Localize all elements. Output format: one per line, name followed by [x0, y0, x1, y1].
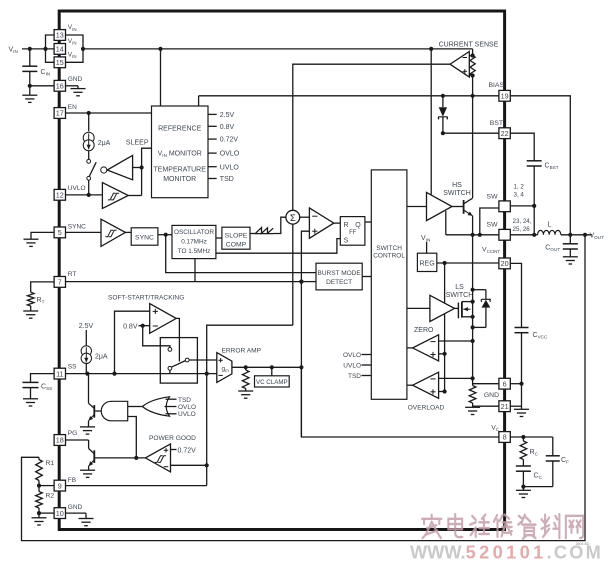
svg-text:R2: R2: [46, 493, 55, 500]
wire collector column: [472, 96, 474, 198]
wire VIN pin bracket right: [66, 35, 84, 62]
node VIN CIN tap: [28, 47, 32, 51]
wire sw1 internal: [480, 208, 499, 235]
wire pg out: [95, 457, 146, 459]
svg-text:GND: GND: [68, 76, 83, 83]
svg-text:ERROR AMP: ERROR AMP: [222, 347, 262, 354]
svg-text:0.72V: 0.72V: [220, 137, 239, 144]
wire SS rail: [66, 373, 217, 375]
pin 10 GND: [54, 504, 82, 519]
wire RT pin left: [31, 282, 54, 292]
svg-text:ZERO: ZERO: [414, 327, 434, 334]
amp ERROR gm: [217, 353, 232, 383]
wire sw to drain: [472, 235, 474, 302]
svg-text:GND: GND: [484, 392, 499, 399]
node RT burst join: [299, 280, 303, 284]
block mux: [160, 338, 197, 384]
svg-text:VC CLAMP: VC CLAMP: [256, 379, 288, 386]
resistor LS sense: [469, 386, 476, 404]
svg-text:FB: FB: [68, 477, 76, 484]
label GND right: [484, 392, 499, 399]
wire L to vout: [561, 234, 592, 236]
wire VIN rail: [83, 48, 473, 50]
node sync osc tap: [164, 233, 168, 237]
terminal VIN label: [9, 47, 18, 55]
wire slope comp out: [250, 233, 255, 235]
ground LS sense: [465, 407, 480, 414]
gate AND: [95, 401, 128, 421]
amp HS driver: [427, 192, 453, 220]
ground ea load: [238, 389, 253, 399]
wire sw1 external: [510, 206, 534, 235]
block VC CLAMP: [255, 376, 290, 387]
svg-text:RT: RT: [68, 271, 77, 278]
svg-text:25, 26: 25, 26: [513, 226, 531, 233]
wire sw to hs driver foot: [445, 211, 447, 235]
watermark url: [410, 543, 603, 563]
current source 2uA SS: [81, 346, 108, 364]
sawtooth glyph: [255, 228, 274, 234]
comparator SYNC: [101, 219, 125, 246]
wire ea out: [232, 366, 302, 368]
pin 22 BST: [490, 120, 511, 139]
switch EN blade: [89, 162, 96, 176]
svg-text:19: 19: [501, 92, 509, 101]
svg-text:PG: PG: [68, 430, 77, 437]
svg-text:0.72V: 0.72V: [178, 447, 197, 454]
wire ss amp out: [176, 318, 179, 361]
wire EN to 2uA: [88, 113, 90, 131]
ground RT: [23, 306, 38, 318]
svg-text:SYNC: SYNC: [68, 224, 86, 231]
comparator OVERLOAD: [413, 372, 439, 398]
wire sync buf to box: [125, 231, 131, 233]
svg-text:TO 1.5MHz: TO 1.5MHz: [178, 248, 211, 255]
wire vc vertical: [300, 282, 302, 437]
svg-text:UVLO: UVLO: [343, 363, 361, 370]
amp LS driver: [430, 295, 455, 321]
wire osc bottom to RT rail: [194, 259, 196, 282]
IC body outline: [59, 11, 504, 530]
svg-text:POWER GOOD: POWER GOOD: [149, 435, 196, 442]
resistor ea load: [242, 367, 249, 388]
ground pins 6/21 external: [514, 409, 529, 416]
svg-text:21: 21: [501, 402, 509, 411]
wire 0.8V to amp minus: [139, 325, 150, 327]
resistor R2: [36, 486, 55, 513]
svg-text:R1: R1: [46, 460, 55, 467]
wire sawtooth to sigma: [274, 217, 286, 233]
node UVLO tap: [87, 193, 91, 197]
capacitor CSS: [23, 374, 55, 399]
labels TSD OVLO UVLO: [178, 397, 196, 418]
resistor RT: [27, 292, 44, 306]
wire bias external: [510, 96, 570, 235]
svg-text:SOFT-START/TRACKING: SOFT-START/TRACKING: [108, 294, 184, 301]
svg-text:2μA: 2μA: [98, 140, 111, 147]
label OVERLOAD: [408, 405, 445, 412]
svg-text:0.17MHz: 0.17MHz: [181, 238, 207, 245]
node body diode bottom: [471, 325, 475, 329]
node pg and tap: [134, 456, 138, 460]
node ss amp tap: [112, 372, 116, 376]
wire zero minus: [439, 340, 473, 342]
svg-text:SW: SW: [487, 221, 499, 228]
node reg comp rail: [443, 261, 447, 265]
wire bst internal: [443, 132, 499, 134]
ground R2: [32, 513, 47, 525]
comparator POWER GOOD: [145, 444, 170, 472]
transistor Q1 ss discharge: [89, 374, 95, 427]
svg-text:SWITCH: SWITCH: [443, 190, 471, 197]
pin 6 GND: [499, 378, 510, 389]
label CURRENT SENSE: [439, 42, 499, 49]
svg-text:UVLO: UVLO: [178, 411, 196, 418]
pin SW 23-26: [487, 218, 532, 240]
ground compensation: [516, 487, 531, 498]
svg-text:5: 5: [58, 228, 62, 237]
svg-text:DETECT: DETECT: [326, 279, 352, 286]
wire VIN to sense res: [472, 49, 474, 56]
svg-text:2.5V: 2.5V: [79, 323, 94, 330]
node sw ext: [532, 233, 536, 237]
wire FB to sigma: [292, 224, 294, 325]
pin 9 FB: [54, 477, 76, 491]
capacitor CC: [516, 460, 543, 487]
node fb ss line: [205, 372, 209, 376]
svg-text:OVLO: OVLO: [178, 404, 196, 411]
svg-text:SW: SW: [487, 193, 499, 200]
wire VIN input: [22, 48, 54, 50]
wire PG pin: [66, 439, 89, 441]
svg-text:UVLO: UVLO: [68, 185, 86, 192]
node zero minus: [471, 339, 475, 343]
wire pin8 external: [510, 436, 553, 438]
inverter sleep: [101, 155, 133, 179]
block REFERENCE/VIN MONITOR/TEMPERATURE MONITOR: [152, 106, 209, 198]
svg-text:BST: BST: [490, 120, 503, 127]
wire pwm to RSFF R: [334, 222, 341, 224]
current source 2uA EN: [83, 132, 110, 151]
svg-text:GND: GND: [68, 504, 83, 511]
node sw pin1 tap: [478, 233, 482, 237]
block BURST MODE DETECT: [316, 263, 362, 290]
svg-text:HS: HS: [452, 182, 462, 189]
transistor Q2 pg: [89, 440, 95, 470]
svg-text:CONTROL: CONTROL: [373, 253, 405, 260]
label POWER GOOD: [149, 435, 196, 442]
svg-text:15: 15: [56, 58, 64, 67]
wire sense to bias: [472, 76, 474, 96]
svg-text:S: S: [344, 237, 349, 244]
svg-text:SYNC: SYNC: [135, 235, 154, 242]
wire bst external: [510, 133, 534, 161]
block OSCILLATOR: [172, 225, 216, 258]
capacitor CBST: [527, 161, 559, 206]
wire cs minus tap: [469, 55, 472, 57]
wire overload plus: [439, 391, 445, 393]
node 0.8V mux tap: [141, 324, 145, 328]
svg-text:18: 18: [56, 436, 64, 445]
svg-text:OSCILLATOR: OSCILLATOR: [174, 229, 214, 236]
wire vccint external: [510, 263, 521, 327]
node vout cout: [568, 233, 572, 237]
wire EN: [66, 112, 152, 114]
node VIN bracket left: [43, 47, 47, 51]
svg-text:MONITOR: MONITOR: [163, 176, 196, 183]
ground Q2: [80, 470, 95, 477]
wire r2 to pin10: [39, 512, 54, 514]
node ss 2uA: [85, 372, 89, 376]
wire pg to and: [128, 417, 137, 458]
label ZERO: [414, 327, 434, 334]
node sense top: [471, 53, 475, 57]
wire reg out: [437, 262, 499, 264]
wire mux lower stub: [169, 370, 171, 373]
switch EN contact lower: [87, 176, 91, 180]
node bst diode: [441, 131, 445, 135]
node zero plus: [443, 352, 447, 356]
wire pg plus 0.72V: [171, 447, 197, 454]
svg-text:SLOPE: SLOPE: [225, 232, 248, 239]
svg-text:6: 6: [503, 379, 507, 388]
comparator UVLO: [102, 183, 128, 209]
wire FB vertical: [207, 325, 293, 485]
block SWITCH CONTROL: [371, 170, 407, 399]
wire SYNC pin: [66, 231, 102, 233]
wire bias rail: [199, 95, 499, 97]
pin 19 BIAS: [489, 82, 511, 101]
amp soft start: [150, 304, 177, 334]
wire 0.8V to mux: [143, 326, 170, 348]
wire RSFF Q out: [365, 221, 371, 223]
wire source column: [472, 302, 474, 386]
svg-text:2.5V: 2.5V: [220, 112, 235, 119]
svg-text:UVLO: UVLO: [220, 164, 240, 171]
wire UVLO buf out: [128, 195, 141, 197]
wire 2.5V stub: [85, 330, 87, 346]
node sense bottom: [471, 73, 475, 77]
node fb pg line: [205, 463, 209, 467]
ground Q1: [80, 427, 95, 434]
summer sigma: [286, 210, 300, 224]
wire vin reg stub: [426, 242, 428, 253]
label ERROR AMP: [222, 347, 262, 354]
svg-text:L: L: [548, 222, 552, 229]
wire sigma to pwm: [300, 216, 310, 218]
node CIN gnd: [28, 84, 32, 88]
svg-text:3604 BD: 3604 BD: [576, 542, 590, 546]
pin SW 1,2 3,4: [487, 184, 525, 212]
pin 21 GND: [499, 401, 510, 412]
ground COUT: [563, 257, 578, 264]
wire VIN pin bracket left: [46, 35, 55, 62]
wire clamp stub: [271, 367, 273, 376]
svg-text:OVLO: OVLO: [343, 352, 361, 359]
label 2.5V: [79, 323, 94, 330]
comparator ZERO: [413, 335, 439, 361]
svg-text:8: 8: [503, 433, 507, 442]
wire burst to switch control: [362, 276, 371, 278]
wire overload minus: [439, 377, 473, 379]
pin 15 VIN: [54, 52, 76, 68]
node overload plus: [443, 389, 447, 393]
node vc ea: [299, 365, 303, 369]
svg-text:EN: EN: [68, 104, 77, 111]
diode LS body: [473, 290, 491, 328]
pin 11 SS: [54, 364, 77, 379]
wire sync tap to burst: [166, 235, 316, 273]
inductor L: [538, 222, 561, 235]
resistor sense: [470, 56, 475, 76]
capacitor CIN: [22, 49, 50, 86]
resistor R1: [36, 457, 55, 485]
wire pin6 internal: [473, 383, 499, 385]
pin 13 VIN: [54, 24, 76, 40]
pin 8 VC: [491, 424, 510, 442]
wire vc to pwm plus: [301, 231, 309, 281]
svg-text:10: 10: [56, 509, 64, 518]
svg-text:SLEEP: SLEEP: [126, 140, 149, 147]
wire cf bottom: [523, 486, 552, 488]
svg-text:SWITCH: SWITCH: [376, 245, 402, 252]
switch mux contact lower: [168, 366, 172, 370]
node sleep/uvlo join: [140, 165, 144, 169]
wire osc to RSFF S: [216, 239, 340, 254]
gate OR: [128, 397, 177, 416]
svg-text:TSD: TSD: [220, 176, 234, 183]
node overload minus: [471, 376, 475, 380]
svg-text:13: 13: [56, 31, 64, 40]
label LS SWITCH: [446, 284, 474, 299]
wire burst input b: [301, 281, 316, 283]
svg-text:12: 12: [56, 191, 64, 200]
svg-text:1, 2: 1, 2: [514, 184, 525, 191]
wire switch to UVLO line: [88, 180, 90, 195]
comparator PWM: [309, 208, 333, 238]
block REG: [417, 253, 436, 271]
wire mux common to ea: [189, 359, 217, 361]
transistor HS NPN: [464, 198, 473, 216]
capacitor CF: [546, 437, 569, 487]
svg-text:23, 24,: 23, 24,: [513, 218, 532, 225]
wire VIN to reference: [160, 49, 162, 106]
pin 18 PG: [54, 430, 77, 445]
svg-text:TSD: TSD: [178, 397, 191, 404]
wire vout feedback: [22, 235, 586, 541]
node r2 gnd: [37, 511, 41, 515]
capacitor COUT: [545, 235, 578, 257]
label SLEEP: [126, 140, 149, 147]
wire hs base: [452, 206, 464, 208]
switch mux common: [185, 358, 189, 362]
svg-text:17: 17: [56, 109, 64, 118]
label VIN reg: [421, 235, 430, 243]
wire hs drive: [407, 206, 427, 208]
node VIN ref tap: [158, 47, 162, 51]
pin 17 EN: [54, 104, 77, 118]
reference output stubs 2.5V/0.8V/0.72V/OVLO/UVLO/TSD: [208, 112, 240, 183]
svg-text:TSD: TSD: [348, 373, 361, 380]
node cvcc gnd: [519, 382, 523, 386]
node bias collector: [471, 94, 475, 98]
svg-text:9: 9: [58, 481, 62, 490]
svg-text:22: 22: [501, 129, 509, 138]
ground CIN: [22, 86, 37, 103]
wire hs emitter: [472, 216, 474, 235]
wire pin21 external: [510, 384, 521, 410]
node fb div: [37, 484, 41, 488]
svg-text:11: 11: [56, 369, 63, 378]
ground pin10 external: [66, 513, 94, 526]
fineprint 3604 BD: [576, 542, 590, 546]
svg-text:SWITCH: SWITCH: [446, 292, 474, 299]
watermark chinese characters: [422, 514, 583, 539]
switch mux contact upper: [168, 348, 172, 352]
wire comp rail vertical: [444, 263, 446, 392]
wire ls gate: [455, 307, 459, 309]
svg-text:0.8V: 0.8V: [123, 323, 138, 330]
wire reference to BIAS rail: [198, 96, 200, 106]
node sw emitter: [471, 233, 475, 237]
pin 5 SYNC: [54, 224, 86, 238]
wire 2uA to ss: [85, 364, 87, 374]
pin 14 VIN: [54, 38, 76, 54]
svg-text:20: 20: [501, 259, 509, 268]
wire 2uA to switch: [88, 151, 90, 160]
switch control inputs OVLO/UVLO/TSD: [343, 352, 371, 380]
svg-text:0.8V: 0.8V: [220, 124, 235, 131]
svg-text:FF: FF: [349, 230, 357, 236]
capacitor CVCC: [515, 328, 548, 384]
node bst sw1: [532, 204, 536, 208]
wire cs out to sigma: [293, 64, 450, 210]
wire FB internal: [66, 485, 207, 487]
wire pg minus: [171, 464, 207, 466]
svg-text:CURRENT SENSE: CURRENT SENSE: [439, 42, 499, 49]
wire ss to amp plus: [115, 311, 150, 373]
diode bootstrap: [438, 96, 447, 133]
ground CSS: [23, 399, 38, 406]
wire ls drive: [407, 307, 430, 309]
transistor LS NMOS: [458, 302, 472, 319]
wire fb pin: [39, 485, 54, 487]
wire sleep out: [133, 167, 142, 169]
terminal VOUT label: [590, 233, 605, 241]
svg-text:16: 16: [56, 82, 64, 91]
svg-text:R: R: [343, 222, 348, 229]
ground SYNC external: [24, 232, 55, 246]
node rc tap: [521, 435, 525, 439]
svg-text:WWW.520101.COM: WWW.520101.COM: [410, 543, 603, 563]
wire zero out: [407, 347, 413, 349]
pin 20 VCCINT: [482, 246, 510, 268]
wire RT rail: [66, 281, 302, 283]
node VIN bracket right: [81, 47, 85, 51]
label HS SWITCH: [443, 182, 471, 197]
svg-text:COMP: COMP: [226, 241, 247, 248]
svg-text:TEMPERATURE: TEMPERATURE: [154, 167, 207, 174]
switch mux blade: [171, 361, 185, 368]
node ea clamp: [270, 365, 274, 369]
node bias diode: [441, 94, 445, 98]
label SOFT-START/TRACKING: [108, 294, 184, 301]
node source: [471, 315, 475, 319]
wire cs plus tap: [469, 74, 472, 76]
wire CIN to pin16: [30, 85, 54, 87]
svg-text:BURST MODE: BURST MODE: [317, 270, 361, 277]
svg-text:BIAS: BIAS: [489, 82, 505, 89]
